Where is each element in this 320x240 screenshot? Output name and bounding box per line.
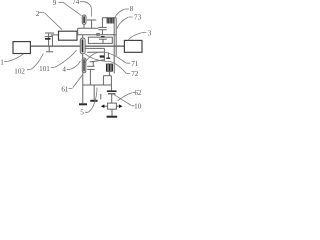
svg-text:9: 9: [53, 0, 57, 7]
svg-text:8: 8: [130, 5, 134, 13]
left axle end cap: [79, 103, 87, 105]
box 2 (motor): [59, 31, 78, 40]
leader 1: [4, 54, 23, 62]
svg-text:102: 102: [14, 67, 25, 75]
leader 4: [67, 61, 81, 69]
box 1 (engine): [13, 42, 30, 54]
svg-text:4: 4: [62, 65, 66, 73]
synchronizer left of box 2: [51, 33, 59, 46]
wire vertical x114.2: [113, 18, 115, 74]
svg-text:74: 74: [72, 0, 80, 6]
gear comb lower 72: [106, 64, 113, 72]
wire horizontal y85: [83, 84, 112, 86]
wire vertical x116.2: [115, 18, 117, 56]
leader 73: [117, 17, 133, 29]
gear housing box: [88, 36, 112, 43]
clutch stack right: [100, 48, 105, 61]
leader 74: [80, 2, 92, 17]
leader 2: [39, 13, 62, 30]
leader 101: [51, 50, 77, 67]
leader 9: [59, 2, 82, 15]
svg-text:73: 73: [134, 14, 142, 22]
wire main shaft right: [85, 45, 124, 47]
svg-text:101: 101: [39, 65, 50, 73]
wire main shaft left: [30, 45, 80, 47]
gear 74 T symbol: [87, 20, 96, 28]
leader 71: [84, 52, 130, 64]
leader 3: [128, 33, 146, 41]
gear stub x108: [106, 52, 110, 59]
svg-text:62: 62: [134, 89, 142, 97]
final drive gear stack: [107, 90, 117, 103]
wire comb to lower assembly: [103, 71, 111, 90]
leader 102: [27, 54, 43, 70]
leader 8: [114, 9, 129, 18]
svg-text:72: 72: [131, 70, 139, 78]
gear coupling capacitor mid: [87, 62, 94, 85]
svg-text:2: 2: [36, 10, 40, 18]
svg-text:71: 71: [131, 60, 139, 68]
svg-text:5: 5: [80, 108, 84, 116]
wire horizontal y34.7: [78, 34, 117, 36]
leader 5: [85, 88, 97, 113]
box 3 (motor right): [124, 40, 142, 52]
gear T x94.5: [90, 85, 97, 102]
leader 10: [114, 94, 135, 106]
gear pill lower: [82, 58, 86, 73]
svg-text:1: 1: [0, 58, 4, 66]
wire connector y28: [78, 27, 99, 29]
coupling bars on shaft line: [96, 34, 100, 36]
clutch pack 8 (comb): [102, 18, 116, 24]
leader 62: [118, 93, 136, 102]
leader 61: [69, 75, 83, 89]
svg-text:3: 3: [148, 29, 152, 37]
wire second shaft line: [85, 47, 104, 49]
wire horizontal y59.8: [90, 60, 105, 62]
gear pill upper: [82, 15, 86, 28]
gear pill middle: [80, 35, 85, 58]
clutch plates pair: [98, 18, 106, 35]
wire vertical x77.7: [77, 28, 79, 35]
svg-text:10: 10: [134, 102, 142, 110]
leader 72: [85, 54, 130, 74]
differential 10 box: [101, 103, 123, 118]
gear on input shaft: [45, 33, 54, 52]
wire left axle vertical: [82, 73, 84, 104]
svg-text:61: 61: [61, 85, 69, 93]
wire stub x100.8: [100, 94, 102, 99]
